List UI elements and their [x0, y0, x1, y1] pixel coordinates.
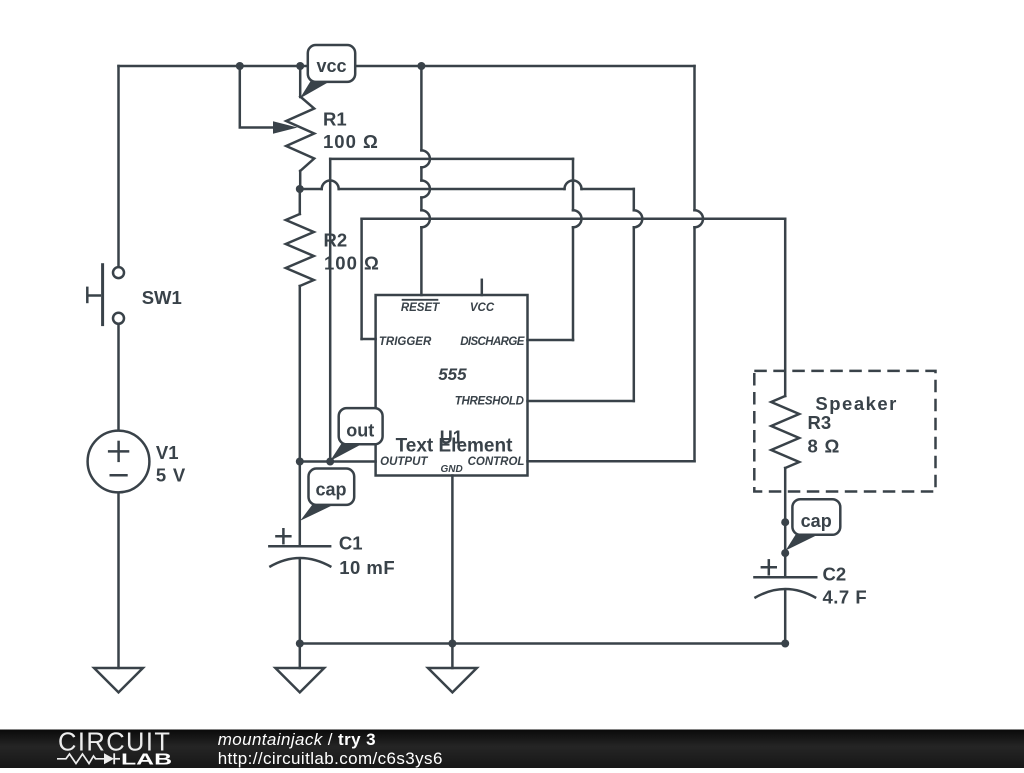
wire threshold vertical upper	[633, 189, 636, 210]
wire W2 seg2	[339, 188, 565, 191]
wire wiper tap vertical	[240, 66, 276, 128]
U1 pin labels	[379, 300, 525, 475]
wire control net top rail drop seg1	[693, 66, 696, 210]
wire V1 to ground	[117, 492, 120, 668]
hop reset over W3	[421, 210, 430, 227]
switch SW1	[87, 263, 124, 326]
svg-text:100 Ω: 100 Ω	[324, 253, 380, 274]
svg-text:10 mF: 10 mF	[339, 557, 395, 578]
svg-text:5 V: 5 V	[156, 464, 186, 485]
wiper arrowhead	[273, 121, 298, 134]
node speaker cap lower	[781, 549, 789, 557]
wire control horizontal into pin	[528, 460, 695, 463]
wire control vertical seg2	[693, 227, 696, 461]
resistor R1 body (potentiometer)	[286, 97, 314, 172]
svg-text:http://circuitlab.com/c6s3ys6: http://circuitlab.com/c6s3ys6	[218, 749, 443, 768]
hop reset over W2	[421, 181, 430, 198]
svg-text:555: 555	[438, 365, 467, 384]
svg-text:R3: R3	[808, 412, 832, 433]
svg-text:4.7 F: 4.7 F	[823, 587, 868, 608]
wire R3 bottom to C2	[784, 468, 787, 577]
svg-text:cap: cap	[315, 480, 346, 500]
wire out vertical x330	[329, 159, 332, 462]
svg-text:Speaker: Speaker	[815, 393, 898, 414]
hop W2 over out vertical	[322, 181, 339, 190]
ground C1	[275, 668, 324, 692]
wire threshold horizontal into pin	[528, 400, 634, 403]
svg-text:R2: R2	[324, 230, 348, 251]
wire discharge vertical upper	[572, 159, 575, 210]
svg-text:LAB: LAB	[121, 752, 172, 769]
hop discharge vertical over W3	[573, 210, 582, 227]
wire reset vertical seg4	[420, 227, 423, 295]
wire output node to C1 top	[299, 462, 302, 547]
net label out	[330, 408, 383, 461]
svg-text:V1: V1	[156, 442, 179, 463]
net label cap left	[300, 469, 354, 521]
net label cap right	[786, 499, 841, 550]
node reset drop on rail	[417, 62, 425, 70]
footer bar	[0, 729, 1024, 769]
node output out label	[326, 458, 334, 466]
wire trigger vertical	[360, 219, 363, 339]
svg-text:vcc: vcc	[316, 56, 346, 76]
wire reset vertical seg2	[420, 167, 423, 180]
svg-text:cap: cap	[801, 511, 832, 531]
speaker dashed box	[754, 371, 935, 492]
node rail C1	[296, 640, 304, 648]
hop reset over W1	[421, 150, 430, 167]
node R1 R2 junction	[296, 185, 304, 193]
wire R2 top lead	[299, 189, 302, 214]
wire R1 top lead	[299, 66, 302, 97]
wire W3 horizontal trigger to speaker	[362, 218, 786, 221]
svg-text:8 Ω: 8 Ω	[808, 436, 841, 457]
svg-text:VCC: VCC	[470, 302, 495, 314]
wire top rail vcc net	[119, 65, 695, 68]
wire reset vertical seg1	[420, 66, 423, 150]
svg-text:GND: GND	[440, 464, 462, 475]
capacitor C2	[753, 559, 817, 598]
wire discharge vertical lower	[572, 227, 575, 340]
wire R2 bottom down to output node	[299, 286, 302, 462]
wire W2 threshold net seg1	[300, 188, 322, 191]
svg-text:DISCHARGE: DISCHARGE	[460, 336, 525, 348]
wire C1 ground stem	[299, 644, 302, 669]
wire output pin row	[300, 460, 376, 463]
wire reset vertical seg3	[420, 198, 423, 211]
component value labels	[142, 109, 898, 608]
svg-text:out: out	[346, 420, 374, 440]
wire 555 gnd pin to ground	[451, 476, 454, 669]
node rail C2	[781, 640, 789, 648]
svg-text:CONTROL: CONTROL	[468, 456, 525, 468]
op-amp U1 555 timer box	[376, 295, 528, 476]
node output left	[296, 458, 304, 466]
wire bottom rail	[300, 642, 785, 645]
resistor R2 body	[286, 214, 314, 286]
svg-text:TRIGGER: TRIGGER	[379, 336, 432, 348]
svg-text:Text Element: Text Element	[396, 436, 514, 457]
wire R1 bottom lead	[299, 171, 302, 189]
wire discharge horizontal into pin	[528, 339, 574, 342]
node speaker cap upper	[781, 518, 789, 526]
svg-text:100 Ω: 100 Ω	[323, 131, 379, 152]
voltage source V1	[88, 431, 150, 493]
svg-text:C1: C1	[339, 533, 363, 554]
ground V1	[94, 668, 143, 692]
ground U1	[428, 668, 477, 692]
wire speaker drop to R3	[784, 219, 787, 396]
svg-text:THRESHOLD: THRESHOLD	[455, 396, 524, 408]
net label vcc	[300, 45, 355, 99]
wire SW1 to V1	[117, 325, 120, 431]
wire W1 horizontal out to discharge	[330, 158, 573, 161]
svg-text:mountainjack / try 3: mountainjack / try 3	[218, 730, 376, 749]
node R1 top on rail	[296, 62, 304, 70]
wire C2 bottom to rail	[784, 591, 787, 644]
node wiper tap on rail	[236, 62, 244, 70]
svg-text:SW1: SW1	[142, 287, 182, 308]
wire W2 seg3	[582, 188, 634, 191]
wire left drop rail to SW1	[117, 66, 120, 267]
wire vcc pin stub	[481, 280, 484, 295]
wire trigger pin stub	[362, 338, 376, 341]
capacitor C1	[268, 528, 331, 567]
logo zigzag diode	[57, 754, 104, 764]
wire C1 bottom to rail	[299, 560, 302, 644]
resistor R3 body	[771, 396, 799, 468]
hop W2 over discharge vertical	[565, 181, 582, 190]
hop control vertical over W3	[695, 210, 704, 227]
wire threshold vertical lower	[633, 227, 636, 401]
svg-text:R1: R1	[323, 109, 347, 130]
node rail gnd	[448, 640, 456, 648]
hop threshold vertical over W3	[634, 210, 643, 227]
svg-text:C2: C2	[823, 564, 847, 585]
svg-text:OUTPUT: OUTPUT	[380, 456, 428, 468]
svg-text:RESET: RESET	[401, 302, 440, 314]
